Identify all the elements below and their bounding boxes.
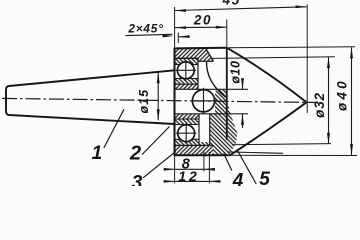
flare curve — [206, 62, 225, 97]
hatch: top inner race band — [175, 79, 198, 85]
dim 12 — [175, 180, 210, 182]
central thrust ball — [192, 90, 214, 112]
band boundary lines — [175, 57, 198, 59]
cone upper edge — [227, 48, 306, 102]
housing right face — [226, 48, 228, 140]
chamfer edge — [206, 48, 214, 61]
spindle stem top line / d10 extension — [175, 88, 249, 90]
bearing right face vertical — [197, 58, 199, 89]
cone lower edge — [230, 102, 307, 155]
d40 extension bottom — [230, 154, 357, 156]
svg-text:1: 1 — [92, 143, 103, 164]
ext line 12 right — [208, 152, 210, 184]
hatch: housing bottom wall — [175, 145, 214, 155]
hatch: housing top wall — [175, 48, 214, 61]
d40 extension top — [228, 47, 356, 48]
blob left edge vertical — [209, 114, 211, 146]
d32 extension top — [211, 57, 335, 59]
dim d32 — [328, 57, 330, 144]
dim 20 line — [175, 26, 227, 28]
hatch: bottom outer race band — [175, 139, 200, 145]
bottom bearing ball — [178, 125, 195, 142]
svg-text:2: 2 — [129, 143, 141, 165]
dim d15 — [157, 72, 159, 120]
centerline — [2, 98, 316, 102]
svg-text:5: 5 — [259, 169, 270, 186]
svg-text:4: 4 — [232, 171, 244, 187]
dim d10 — [242, 79, 244, 90]
svg-text:20: 20 — [193, 13, 212, 28]
ext line 8 right — [203, 152, 205, 172]
svg-text:ø10: ø10 — [229, 61, 243, 84]
hatch: bottom spacer band — [175, 114, 200, 119]
top bearing ball — [177, 62, 194, 79]
ext line apex (x=307) — [306, 5, 308, 114]
svg-text:ø32: ø32 — [312, 92, 327, 118]
housing left face — [174, 48, 176, 155]
dim 45 line — [175, 7, 307, 11]
hatch: top spacer band — [175, 84, 198, 89]
svg-text:ø40: ø40 — [334, 78, 349, 111]
svg-text:12: 12 — [178, 168, 200, 184]
nut bottom edge — [228, 152, 283, 153]
svg-text:45: 45 — [222, 0, 241, 7]
spindle stem bottom line / d10 extension — [175, 113, 249, 115]
hatch: cone root sliver above axis — [210, 89, 238, 155]
dim 8 — [175, 168, 204, 170]
hatch: top outer race band — [175, 58, 198, 64]
svg-text:2×45°: 2×45° — [127, 21, 163, 35]
shank outline — [6, 70, 175, 124]
hatch: bottom inner race band — [175, 119, 200, 125]
d32 extension bottom — [232, 144, 331, 145]
ext line 20 right — [226, 20, 228, 48]
housing bottom face — [174, 154, 230, 156]
housing top face — [174, 47, 228, 50]
ext line left (x=174.5 above housing) — [174, 7, 176, 47]
svg-text:ø15: ø15 — [137, 89, 151, 114]
ext line housing left below — [174, 156, 176, 184]
svg-text:3: 3 — [132, 172, 143, 186]
dim d40 — [351, 47, 353, 155]
